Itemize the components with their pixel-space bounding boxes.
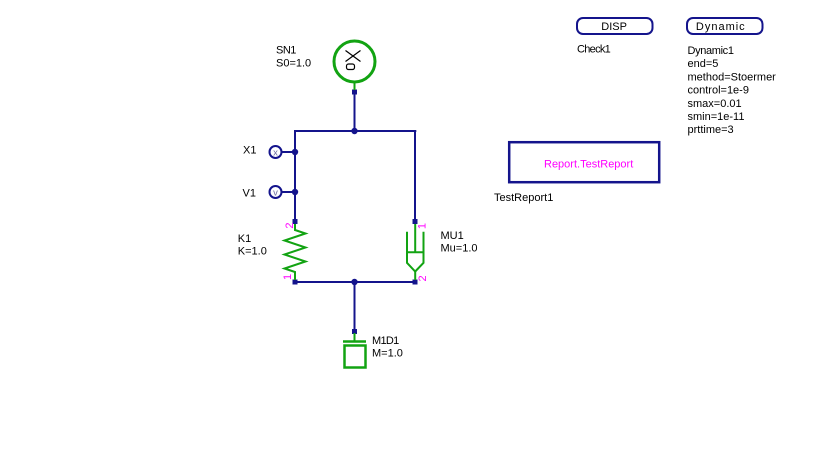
svg-text:v: v [273, 188, 278, 199]
svg-text:SN1: SN1 [276, 45, 296, 57]
svg-text:2: 2 [417, 275, 429, 281]
svg-text:method=Stoermer: method=Stoermer [688, 71, 777, 83]
svg-text:V1: V1 [243, 187, 256, 199]
svg-text:Report.TestReport: Report.TestReport [544, 158, 633, 170]
svg-text:1: 1 [282, 274, 294, 280]
svg-text:M=1.0: M=1.0 [372, 348, 403, 360]
svg-text:1: 1 [417, 223, 429, 229]
svg-text:MU1: MU1 [441, 230, 464, 242]
svg-text:smin=1e-11: smin=1e-11 [688, 111, 745, 123]
svg-text:end=5: end=5 [688, 58, 719, 70]
svg-text:Dynamic: Dynamic [696, 21, 746, 33]
svg-text:Mu=1.0: Mu=1.0 [441, 243, 478, 255]
svg-text:M1D1: M1D1 [372, 335, 399, 347]
svg-text:2: 2 [284, 223, 296, 229]
svg-text:smax=0.01: smax=0.01 [688, 98, 742, 110]
svg-text:control=1e-9: control=1e-9 [688, 85, 749, 97]
svg-text:Check1: Check1 [577, 44, 611, 56]
svg-text:TestReport1: TestReport1 [494, 192, 553, 204]
svg-text:S0=1.0: S0=1.0 [276, 58, 311, 70]
svg-text:DISP: DISP [601, 21, 627, 33]
svg-text:K1: K1 [238, 233, 251, 245]
svg-text:X1: X1 [243, 145, 256, 157]
svg-text:x: x [273, 148, 278, 159]
svg-text:prttime=3: prttime=3 [688, 124, 734, 136]
svg-text:Dynamic1: Dynamic1 [688, 45, 734, 57]
svg-text:K=1.0: K=1.0 [238, 246, 267, 258]
